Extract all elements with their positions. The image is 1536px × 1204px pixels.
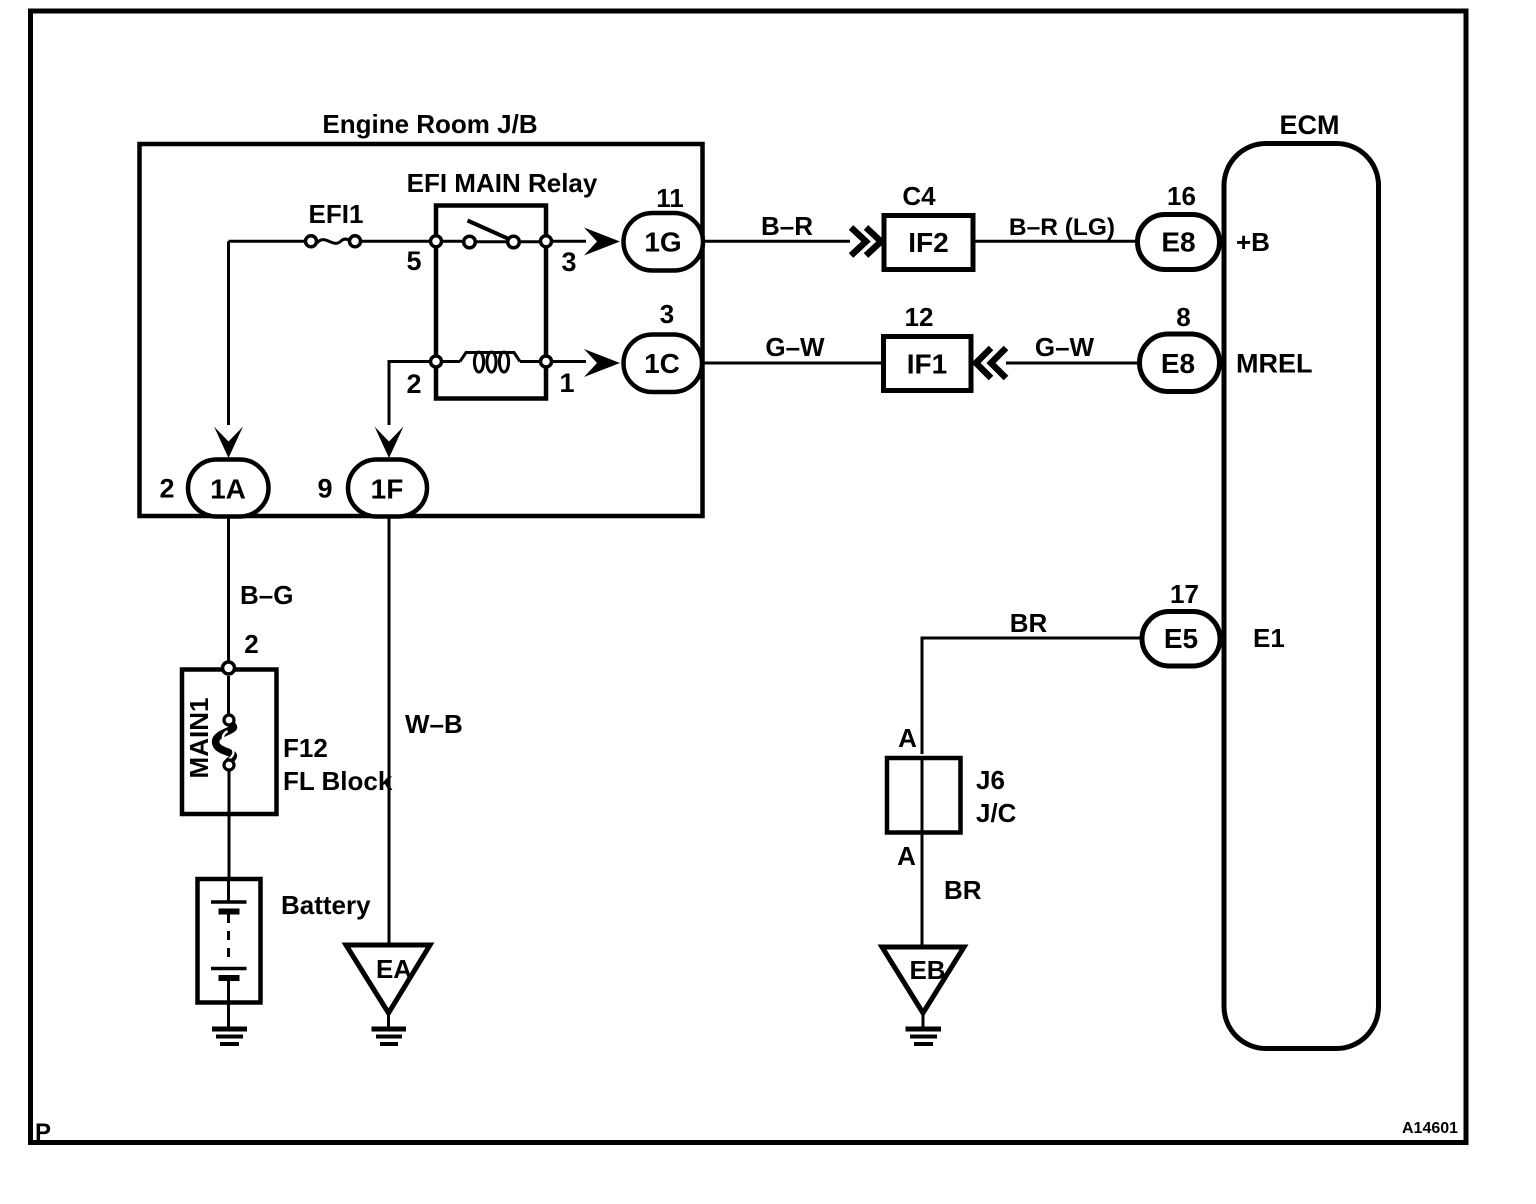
svg-text:BR: BR bbox=[944, 875, 982, 905]
svg-text:C4: C4 bbox=[902, 181, 936, 211]
svg-text:Battery: Battery bbox=[281, 890, 371, 920]
svg-text:F12: F12 bbox=[283, 733, 328, 763]
svg-text:E1: E1 bbox=[1253, 623, 1285, 653]
svg-text:B–R (LG): B–R (LG) bbox=[1009, 214, 1115, 241]
svg-text:E5: E5 bbox=[1164, 623, 1198, 654]
svg-text:E8: E8 bbox=[1161, 348, 1195, 379]
svg-text:A: A bbox=[898, 723, 917, 753]
svg-text:12: 12 bbox=[905, 302, 934, 332]
svg-text:3: 3 bbox=[660, 299, 674, 329]
svg-text:17: 17 bbox=[1170, 579, 1199, 609]
svg-text:G–W: G–W bbox=[765, 332, 825, 362]
svg-text:J6: J6 bbox=[976, 765, 1005, 795]
svg-text:IF2: IF2 bbox=[908, 227, 948, 258]
svg-text:8: 8 bbox=[1176, 302, 1190, 332]
svg-text:FL Block: FL Block bbox=[283, 766, 393, 796]
svg-text:A: A bbox=[897, 841, 916, 871]
svg-text:MREL: MREL bbox=[1236, 349, 1313, 379]
svg-text:2: 2 bbox=[244, 629, 258, 659]
svg-text:W–B: W–B bbox=[405, 709, 463, 739]
svg-text:J/C: J/C bbox=[976, 798, 1017, 828]
svg-text:16: 16 bbox=[1167, 181, 1196, 211]
svg-text:EFI MAIN Relay: EFI MAIN Relay bbox=[407, 168, 598, 198]
svg-text:EA: EA bbox=[376, 954, 412, 984]
svg-text:9: 9 bbox=[317, 474, 332, 504]
svg-text:EFI1: EFI1 bbox=[309, 199, 364, 229]
svg-text:G–W: G–W bbox=[1035, 332, 1095, 362]
svg-text:B–G: B–G bbox=[240, 580, 293, 610]
svg-text:B–R: B–R bbox=[761, 211, 813, 241]
svg-text:1A: 1A bbox=[210, 474, 246, 505]
svg-text:A14601: A14601 bbox=[1402, 1120, 1458, 1137]
svg-text:1C: 1C bbox=[644, 348, 680, 379]
svg-text:ECM: ECM bbox=[1280, 110, 1340, 140]
svg-text:BR: BR bbox=[1010, 608, 1048, 638]
svg-text:MAIN1: MAIN1 bbox=[184, 698, 214, 779]
svg-text:5: 5 bbox=[406, 246, 421, 276]
svg-text:EB: EB bbox=[909, 955, 945, 985]
svg-text:+B: +B bbox=[1236, 227, 1270, 257]
svg-text:P: P bbox=[35, 1119, 51, 1146]
svg-text:2: 2 bbox=[406, 369, 421, 399]
svg-text:Engine Room J/B: Engine Room J/B bbox=[322, 109, 537, 139]
svg-text:1G: 1G bbox=[644, 227, 681, 258]
svg-text:1F: 1F bbox=[371, 474, 404, 505]
svg-text:11: 11 bbox=[656, 183, 684, 213]
svg-text:E8: E8 bbox=[1161, 227, 1195, 258]
svg-text:2: 2 bbox=[159, 474, 174, 504]
svg-text:IF1: IF1 bbox=[907, 349, 947, 380]
svg-text:1: 1 bbox=[559, 368, 574, 398]
svg-text:3: 3 bbox=[561, 247, 576, 277]
